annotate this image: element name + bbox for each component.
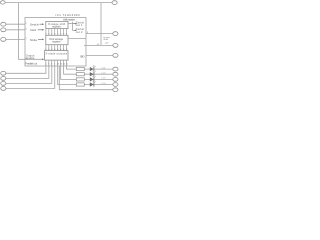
pad strobe	[1, 38, 6, 42]
wire GND pin 8	[86, 54, 113, 56]
connector pads left	[0, 1, 118, 58]
pad serial in	[1, 22, 6, 26]
wire out O5 row4	[58, 66, 113, 85]
resistor R2	[76, 73, 84, 76]
wire Q'S branch	[73, 22, 75, 31]
resistors R1-R4	[76, 68, 84, 87]
arrow strobe	[38, 38, 43, 40]
pad +V top left	[0, 1, 5, 4]
svg-text:register: register	[52, 40, 61, 44]
arrow output enable	[42, 58, 44, 60]
latch box	[46, 35, 68, 44]
resistor R4	[76, 83, 84, 86]
svg-text:out 2: out 2	[76, 30, 83, 34]
resistor R3	[76, 78, 84, 81]
wire out O3	[6, 66, 52, 83]
arrows between latch and output box	[45, 45, 67, 51]
pad +V top right	[112, 1, 117, 5]
pad 0V	[113, 88, 118, 92]
output buffer box	[45, 51, 69, 61]
arrow serial out 1	[73, 23, 75, 25]
wire +V drop to VDD pin	[100, 3, 102, 46]
IC U1 outline	[25, 18, 86, 67]
arrow serial out 2	[74, 29, 77, 31]
pad serial out	[113, 32, 118, 36]
wire VSS bus	[59, 66, 113, 90]
wire out O7 row2	[64, 66, 113, 74]
arrow clock	[38, 29, 43, 31]
pin numbers	[25, 23, 110, 85]
svg-text:+6V: +6V	[105, 43, 109, 45]
pad O1	[1, 71, 6, 75]
svg-text:3-state outputs: 3-state outputs	[45, 51, 67, 55]
pad O4	[1, 87, 6, 91]
arrow serial in	[40, 23, 43, 25]
wire +V drop to output-enable	[19, 3, 43, 60]
wire serial out QS	[86, 33, 113, 35]
resistor R1	[76, 68, 84, 71]
wire out O2	[6, 66, 49, 78]
labels	[26, 13, 85, 65]
parallel out left wiring	[6, 66, 55, 88]
wire clock	[6, 29, 25, 31]
svg-text:IC1 74HC4094: IC1 74HC4094	[56, 13, 80, 17]
svg-text:Parallel out: Parallel out	[26, 62, 38, 66]
pad O3	[1, 82, 6, 86]
pad VDD right	[113, 44, 118, 48]
shift register box	[46, 21, 68, 28]
wire serial out stub Q'S	[68, 37, 86, 39]
pad O2	[1, 77, 6, 81]
wire out O6 row3	[61, 66, 113, 79]
svg-text:register: register	[52, 25, 61, 29]
svg-text:4094: 4094	[103, 39, 109, 41]
svg-text:Strobe: Strobe	[30, 38, 38, 42]
wire out O8 row1	[67, 66, 113, 69]
wire top +V rail	[6, 2, 112, 4]
svg-text:GND: GND	[80, 55, 85, 59]
pads right LED rows + 0V	[113, 67, 118, 91]
pad row3	[113, 78, 118, 82]
pad row2	[113, 72, 118, 76]
pad row4	[113, 83, 118, 87]
lines output box to IC edge	[46, 60, 67, 66]
input arrows	[38, 23, 77, 60]
arrows between shift register and latch	[45, 29, 67, 36]
wire VDD pin 16	[84, 44, 113, 46]
pad clock	[1, 28, 6, 32]
svg-text:Clock: Clock	[30, 28, 37, 32]
LEDs D1-D4	[90, 65, 96, 87]
wire out O1	[6, 66, 46, 73]
wire strobe	[6, 38, 25, 40]
LED output rows right	[58, 66, 113, 90]
pad row1	[113, 67, 118, 71]
wire out O4	[6, 66, 55, 88]
wire serial in	[6, 23, 25, 25]
svg-text:Serial in: Serial in	[30, 23, 39, 27]
pad GND right	[113, 54, 118, 58]
wire QS branch	[68, 23, 73, 25]
